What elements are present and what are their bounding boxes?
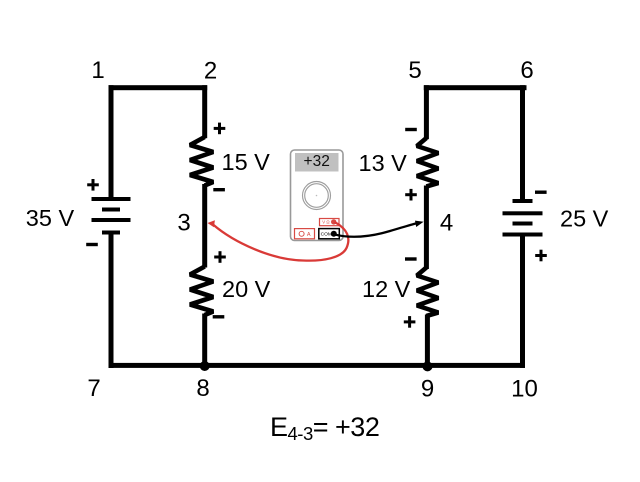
svg-text:6: 6	[520, 57, 533, 84]
wire left branch upper stub (node 2 to resistor R1)	[202, 85, 207, 138]
multimeter V-ohm jack	[320, 219, 340, 226]
polarity + below resistor R3	[405, 189, 417, 201]
polarity - below resistor R1	[213, 188, 225, 191]
svg-text:2: 2	[204, 58, 217, 85]
wire right branch upper stub (node 5 to resistor R3)	[424, 85, 429, 139]
svg-text:25 V: 25 V	[560, 205, 609, 231]
svg-text:5: 5	[408, 57, 421, 84]
svg-text:20 V: 20 V	[222, 276, 271, 302]
resistor R4 (12 V)	[417, 268, 438, 317]
polarity - battery B2 top	[535, 190, 547, 193]
junction node 9 dot	[423, 361, 433, 371]
battery B2 (25 V) plates	[503, 199, 543, 237]
polarity + below resistor R4	[404, 316, 416, 328]
svg-text:E4-3= +32: E4-3= +32	[270, 412, 379, 444]
svg-text:13 V: 13 V	[359, 150, 408, 176]
polarity + above resistor R1	[214, 123, 226, 135]
multimeter dial	[303, 182, 331, 210]
svg-text:4: 4	[440, 210, 453, 237]
wire left branch middle (R1 to node 3 to resistor R2)	[202, 184, 207, 268]
wire left branch lower (R2 to node 8)	[202, 314, 207, 368]
svg-text:A: A	[307, 232, 311, 238]
wire top-right horizontal (node 5 to node 6)	[424, 85, 527, 90]
multimeter A jack	[295, 229, 315, 239]
polarity - above resistor R3	[405, 128, 417, 131]
polarity - below resistor R2	[213, 315, 225, 318]
wire top-left horizontal (node 1 to node 2)	[109, 85, 208, 90]
svg-text:V Ω: V Ω	[322, 220, 330, 225]
red lead arrowhead at node 3	[208, 220, 215, 227]
polarity - battery B1 bottom	[86, 243, 98, 246]
svg-text:+32: +32	[304, 153, 330, 170]
red test lead from V-ohm jack to node 3	[213, 222, 348, 261]
svg-text:15 V: 15 V	[222, 149, 271, 175]
polarity + battery B2 bottom	[535, 250, 547, 262]
wire right branch lower (R4 to node 9)	[425, 315, 430, 368]
multimeter display showing +32	[295, 153, 339, 172]
polarity + above resistor R2	[214, 251, 226, 263]
wire left vertical lower (battery B1 - to node 7)	[109, 232, 114, 369]
polarity + battery B1 top	[87, 179, 99, 191]
resistor R3 (13 V)	[417, 138, 438, 187]
resistor R2 (20 V)	[190, 267, 213, 316]
svg-text:1: 1	[91, 57, 104, 84]
junction node 8 dot	[200, 361, 210, 371]
svg-text:3: 3	[177, 210, 190, 237]
wire left vertical upper (node 1 to battery B1 +)	[109, 85, 114, 201]
black test lead from COM jack to node 4	[334, 223, 417, 237]
resistor R1 (15 V)	[190, 137, 213, 186]
wire bottom horizontal (node 7 to node 10)	[109, 363, 526, 368]
svg-text:10: 10	[511, 376, 538, 403]
svg-text:12 V: 12 V	[362, 276, 411, 302]
wire right branch middle (R3 to node 4 to resistor R4)	[424, 186, 429, 270]
battery B1 (35 V) plates	[92, 197, 131, 235]
svg-text:COM: COM	[321, 232, 332, 238]
svg-text:8: 8	[196, 375, 209, 402]
black lead arrowhead at node 4	[415, 221, 424, 227]
svg-text:35 V: 35 V	[26, 205, 75, 231]
multimeter COM jack	[319, 229, 340, 239]
wire right vertical upper (node 6 to battery B2 -)	[520, 85, 525, 202]
multimeter M1 body	[291, 150, 344, 241]
svg-text:9: 9	[421, 376, 434, 403]
svg-text:7: 7	[87, 375, 100, 402]
polarity - above resistor R4	[405, 257, 417, 260]
wire right vertical lower (battery B2 + to node 10)	[520, 234, 525, 368]
